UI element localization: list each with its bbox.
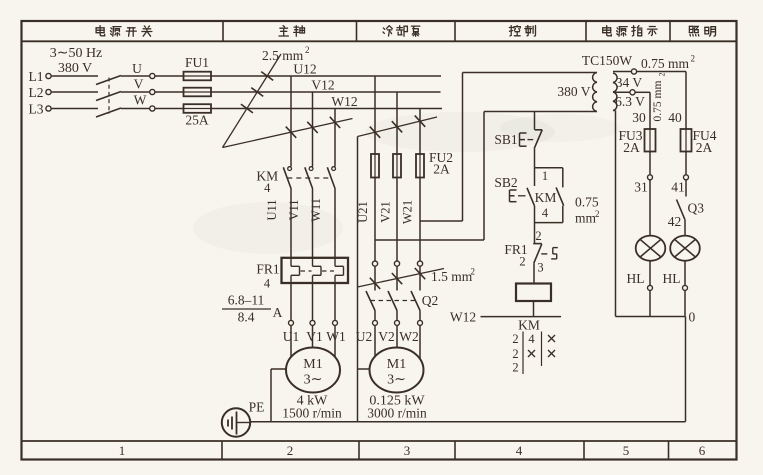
svg-text:5: 5 — [623, 443, 630, 458]
svg-text:41: 41 — [671, 180, 685, 195]
terminal V1 — [310, 320, 315, 325]
terminal secondary top — [613, 69, 637, 74]
wire drop V21 from V12 — [396, 92, 398, 154]
wire Q2 to V2 — [396, 311, 398, 321]
wire W1 lead — [334, 283, 336, 320]
svg-text:2: 2 — [691, 54, 696, 64]
transformer TC primary winding — [557, 73, 597, 112]
svg-text:V11: V11 — [287, 199, 301, 220]
terminal W1 — [333, 320, 338, 325]
lamp HL right — [670, 236, 700, 261]
wire V21 lead — [396, 178, 398, 262]
wire PE rail — [250, 421, 685, 423]
wire U1 to motor — [290, 325, 292, 357]
svg-text:380 V: 380 V — [58, 61, 92, 76]
svg-text:2A: 2A — [696, 140, 713, 155]
wire FR1 to coil — [533, 263, 535, 283]
terminal V2 — [395, 320, 400, 325]
wire U2 to motor — [374, 325, 376, 357]
svg-text:V21: V21 — [379, 201, 393, 223]
wire W1 to motor — [334, 325, 336, 357]
wire U11 lead — [290, 189, 292, 258]
svg-text:V12: V12 — [311, 78, 334, 93]
svg-text:2: 2 — [512, 347, 518, 361]
svg-text:V1: V1 — [306, 329, 323, 344]
svg-text:Q3: Q3 — [688, 201, 705, 216]
terminal W21 — [417, 261, 422, 266]
terminal lamp left — [648, 285, 653, 290]
thermal overload FR1 contact — [504, 242, 557, 275]
terminal V21 — [394, 261, 399, 266]
svg-text:8.4: 8.4 — [238, 310, 255, 325]
svg-text:3: 3 — [537, 261, 543, 275]
svg-text:mm: mm — [575, 211, 597, 226]
svg-text:KM: KM — [518, 318, 540, 333]
wire FU3 to 31 — [649, 152, 651, 175]
svg-text:6.3 V: 6.3 V — [615, 94, 645, 109]
svg-text:HL: HL — [663, 271, 681, 286]
svg-text:4: 4 — [516, 443, 523, 458]
wire bus W12 — [211, 108, 442, 110]
wire U1 lead — [290, 283, 292, 320]
svg-text:42: 42 — [668, 214, 682, 229]
svg-text:2: 2 — [535, 229, 541, 243]
wire drop W21 from W12 — [419, 109, 421, 155]
svg-text:SB1: SB1 — [494, 132, 517, 147]
thermal overload FR1 heater — [256, 258, 348, 291]
svg-text:0.75 mm: 0.75 mm — [641, 56, 690, 71]
header label power-switch zone — [96, 26, 152, 37]
svg-text:2A: 2A — [433, 162, 450, 177]
wire FU4 to 41 — [685, 152, 687, 175]
svg-text:3∼: 3∼ — [387, 373, 406, 388]
header label control zone — [509, 26, 535, 37]
function zone header — [222, 21, 670, 460]
header label power-indication zone — [603, 26, 657, 37]
svg-text:M1: M1 — [303, 357, 322, 372]
motor M1 coolant pump — [370, 348, 424, 393]
svg-text:3∼: 3∼ — [304, 373, 323, 388]
contactor KM main contacts — [256, 167, 335, 195]
wire SB1 to node — [534, 149, 536, 168]
svg-text:40: 40 — [668, 110, 682, 125]
svg-text:TC150W: TC150W — [582, 53, 633, 68]
wire secondary bottom — [615, 111, 617, 317]
svg-text:2: 2 — [512, 332, 518, 346]
contactor coil KM — [516, 284, 551, 302]
svg-text:0.75: 0.75 — [575, 195, 599, 210]
node V — [134, 77, 155, 95]
wire W to FU1 — [121, 108, 150, 110]
wire W2 to motor — [419, 325, 421, 359]
wire L1 to switch — [51, 75, 98, 77]
wire V11 lead — [312, 189, 314, 258]
wire 0 rail — [616, 316, 686, 318]
svg-text:4: 4 — [528, 332, 535, 346]
svg-text:FU1: FU1 — [185, 55, 209, 70]
wire to 0 rail right — [684, 290, 686, 316]
wire L3 to switch — [51, 108, 98, 110]
transformer TC secondary winding — [613, 73, 645, 111]
wire secondary top run — [637, 71, 686, 73]
terminal secondary tap — [613, 90, 635, 95]
wire drop U21 from U12 — [374, 76, 376, 154]
disconnect switch QS — [96, 76, 121, 118]
wire W21 lead — [419, 178, 421, 262]
node L1 — [29, 69, 52, 84]
svg-text:380 V: 380 V — [557, 84, 590, 99]
svg-text:L2: L2 — [29, 85, 44, 100]
svg-text:U12: U12 — [293, 62, 316, 77]
wire Q2 to U2 — [374, 311, 376, 321]
wire primary bottom feed — [484, 111, 597, 113]
pushbutton SB2 — [494, 175, 534, 205]
wire V21 to Q2 — [396, 266, 398, 290]
svg-text:30: 30 — [632, 110, 646, 125]
wire PE riser coolant — [357, 137, 359, 422]
wire U to FU1 — [121, 75, 150, 77]
svg-text:2: 2 — [305, 45, 310, 55]
wire U21 lead — [374, 178, 376, 262]
column number strip — [119, 443, 706, 458]
terminal U21 — [372, 261, 377, 266]
svg-text:PE: PE — [249, 400, 265, 415]
wire L2 to switch — [51, 91, 98, 93]
wire primary top to W21 — [420, 220, 463, 222]
fuse FU3 — [618, 128, 655, 155]
wire control feed — [534, 112, 536, 130]
wire to 0 rail left — [649, 290, 651, 316]
svg-text:1: 1 — [119, 443, 126, 458]
wire V2 to motor — [396, 325, 398, 347]
wire W21 to Q2 — [419, 266, 421, 290]
switch Q3 — [677, 200, 705, 220]
svg-text:4: 4 — [264, 181, 271, 195]
svg-text:U11: U11 — [265, 199, 279, 220]
terminal U2 — [373, 320, 378, 325]
wire W12 rail — [481, 316, 562, 318]
node U — [132, 61, 155, 79]
wire secondary tap run — [635, 91, 650, 93]
svg-text:1500 r/min: 1500 r/min — [282, 406, 342, 421]
svg-text:0: 0 — [689, 309, 696, 324]
svg-text:31: 31 — [634, 180, 648, 195]
svg-text:1.5 mm: 1.5 mm — [431, 269, 473, 284]
svg-text:2: 2 — [595, 209, 600, 219]
wire SB2 lead — [534, 168, 536, 186]
svg-text:L3: L3 — [29, 102, 44, 117]
svg-text:2: 2 — [287, 443, 294, 458]
wire V1 to motor — [312, 325, 314, 347]
motor M1 spindle — [286, 348, 340, 393]
svg-text:W1: W1 — [326, 329, 346, 344]
header label coolant-pump zone — [383, 26, 420, 37]
svg-text:SB2: SB2 — [494, 175, 517, 190]
svg-text:V2: V2 — [378, 329, 395, 344]
svg-text:3: 3 — [404, 443, 411, 458]
cable marker 2.5 mm2 — [223, 48, 353, 148]
wire Q2 to W2 — [419, 311, 421, 321]
wire 0 to PE rail — [685, 317, 687, 422]
wire SB2 to FR1 — [534, 205, 536, 243]
node W — [134, 93, 155, 112]
cable marker 1.5 mm2 — [358, 267, 476, 289]
svg-text:25A: 25A — [185, 113, 209, 128]
wire branch top — [535, 167, 563, 169]
svg-text:4: 4 — [542, 206, 549, 220]
fuse FU2 — [371, 150, 453, 178]
lamp HL left — [636, 236, 666, 261]
terminal W2 — [418, 320, 423, 325]
fuse FU1 — [184, 55, 212, 128]
svg-text:2A: 2A — [623, 140, 640, 155]
wire branch bottom — [562, 206, 564, 223]
node L2 — [29, 85, 52, 100]
wire primary bottom to U21 — [375, 239, 484, 241]
wire PE to coolant motor — [358, 368, 370, 370]
terminal 41 — [671, 175, 688, 195]
svg-text:A: A — [273, 305, 283, 320]
earth terminal PE — [222, 408, 250, 436]
current rating fraction 6.8-11/8.4 A — [222, 293, 283, 325]
svg-text:3000 r/min: 3000 r/min — [367, 406, 427, 421]
svg-text:W2: W2 — [399, 329, 419, 344]
wire V1 lead — [312, 283, 314, 320]
wire lamp left down — [649, 261, 651, 286]
wire drop W11 from W12 — [334, 109, 336, 167]
wire V to FU1 — [121, 91, 150, 93]
wire 41 to Q3 — [685, 180, 687, 197]
wire bus U12 — [211, 75, 441, 77]
svg-text:2: 2 — [512, 361, 518, 375]
svg-text:2.5 mm: 2.5 mm — [262, 48, 304, 63]
contact usage table — [512, 332, 555, 375]
svg-text:4: 4 — [264, 277, 271, 291]
svg-text:1: 1 — [542, 169, 548, 183]
terminal 31 — [634, 175, 652, 195]
svg-text:Q2: Q2 — [422, 293, 439, 308]
svg-text:6.8–11: 6.8–11 — [228, 293, 265, 308]
svg-text:2: 2 — [658, 73, 667, 77]
wire coil to rail — [533, 301, 535, 317]
svg-text:W21: W21 — [401, 200, 415, 224]
svg-text:W12: W12 — [450, 310, 476, 325]
svg-text:W11: W11 — [309, 198, 323, 222]
svg-text:L1: L1 — [29, 69, 44, 84]
svg-text:W12: W12 — [331, 94, 357, 109]
header label lighting zone — [689, 26, 715, 36]
wire drop U11 from U12 — [290, 76, 292, 167]
wire W11 lead — [334, 189, 336, 258]
cable marker coolant feed — [358, 116, 438, 138]
svg-text:W: W — [134, 93, 147, 108]
wire primary top feed — [463, 72, 598, 74]
wire PE to motor M1 — [270, 369, 272, 422]
terminal lamp right — [683, 285, 688, 290]
svg-text:FR1: FR1 — [256, 262, 279, 277]
wire bus V12 — [211, 91, 441, 93]
svg-text:6: 6 — [699, 443, 706, 458]
svg-text:HL: HL — [627, 271, 645, 286]
svg-text:KM: KM — [535, 190, 557, 205]
svg-text:2: 2 — [471, 267, 476, 277]
wire lamp right down — [684, 261, 686, 286]
svg-text:2: 2 — [519, 255, 525, 269]
svg-text:U: U — [132, 61, 142, 76]
wire 31 to lamp — [649, 180, 651, 236]
header label spindle zone — [279, 26, 304, 37]
svg-text:V: V — [134, 77, 144, 92]
wire Q3 to lamp — [684, 220, 686, 236]
terminal U1 — [289, 320, 294, 325]
svg-text:U1: U1 — [283, 329, 300, 344]
pushbutton SB1 — [494, 130, 542, 149]
fuse FU4 — [681, 128, 717, 155]
switch Q2 — [366, 291, 438, 311]
svg-text:0.75 mm: 0.75 mm — [652, 81, 664, 122]
svg-text:3∼50 Hz: 3∼50 Hz — [50, 46, 103, 61]
svg-text:34 V: 34 V — [616, 75, 643, 90]
wire drop V11 from V12 — [312, 92, 314, 167]
node L3 — [29, 102, 52, 117]
contactor KM auxiliary contact — [535, 187, 564, 205]
svg-text:M1: M1 — [387, 357, 406, 372]
wire U21 to Q2 — [374, 266, 376, 290]
